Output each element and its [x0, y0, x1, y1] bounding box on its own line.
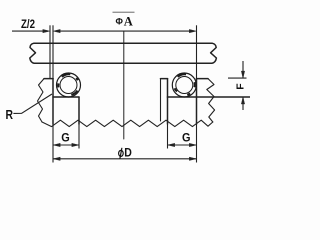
svg-text:Φ: Φ	[116, 16, 124, 26]
svg-text:Z/2: Z/2	[21, 17, 35, 31]
svg-text:G: G	[182, 131, 191, 145]
svg-text:A: A	[124, 15, 133, 29]
svg-text:G: G	[61, 131, 70, 145]
svg-text:F: F	[234, 83, 246, 90]
svg-text:D: D	[124, 148, 132, 160]
svg-text:R: R	[6, 107, 14, 122]
